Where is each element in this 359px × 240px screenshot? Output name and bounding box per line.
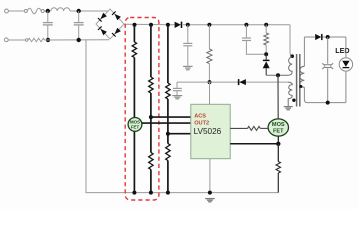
- svg-text:MOS: MOS: [272, 122, 285, 128]
- wire (rectified DC bus): [124, 23, 175, 26]
- capacitor C2 plates: [74, 23, 84, 25]
- wire OUT2 (Q1 to IC): [142, 122, 191, 124]
- node (aux polarity dot): [292, 99, 295, 102]
- junction dot (line3): [166, 132, 170, 136]
- wire (line2 upper): [150, 25, 152, 77]
- wire (line1 lower): [133, 58, 135, 193]
- diode D2 (VCC rectifier): [239, 79, 246, 85]
- capacitor C3 lead: [187, 46, 189, 65]
- bridge diode D-LR: [112, 28, 121, 37]
- junction dot (line2/ACS): [149, 115, 153, 119]
- svg-text:LED: LED: [335, 46, 349, 55]
- ground (C3): [183, 66, 193, 69]
- resistor R2: [132, 42, 136, 57]
- wire (startup R top): [208, 25, 210, 49]
- transformer T1 core: [297, 54, 300, 107]
- wire (line3 to IC): [168, 133, 191, 135]
- transformer T1 primary winding: [266, 57, 292, 75]
- LED D5 symbol: [339, 58, 352, 71]
- junction dot: [77, 9, 81, 13]
- wire: [8, 10, 24, 12]
- wire: [265, 68, 267, 75]
- ground (IC): [205, 199, 215, 202]
- wire (DC bus cont.): [183, 24, 290, 26]
- wire (line3 mid): [167, 99, 169, 144]
- highlight box (red dashed): [125, 18, 159, 201]
- junction dot: [208, 80, 212, 84]
- wire (line2 mid): [150, 93, 152, 153]
- wire (drain): [277, 75, 279, 119]
- wire: [277, 144, 279, 162]
- junction dot: [244, 23, 248, 27]
- capacitor C4 lead: [176, 91, 178, 95]
- node a2 (open circle): [41, 10, 44, 13]
- junction dot: [77, 38, 81, 42]
- capacitor C6 lead: [327, 68, 329, 102]
- bridge diode D-LL: [98, 26, 107, 35]
- wire (return rail down/across bottom): [86, 40, 278, 193]
- wire (line2 lower): [150, 170, 152, 193]
- transistor Q1 (MOS FET circle): [128, 118, 142, 132]
- junction dot: [166, 191, 170, 195]
- capacitor C1 lead: [47, 26, 49, 41]
- resistor R4: [149, 153, 153, 170]
- capacitor C4 plates: [173, 88, 182, 90]
- capacitor C1 lead: [47, 11, 49, 22]
- wire: [8, 39, 25, 41]
- junction dot: [149, 23, 153, 27]
- resistor R5: [166, 83, 170, 99]
- wire (IC ground): [209, 159, 211, 193]
- ground (aux winding): [284, 107, 293, 110]
- capacitor C5 lead: [245, 25, 247, 38]
- wire ACS (to IC): [151, 116, 191, 118]
- junction dot (drain node): [276, 73, 280, 77]
- bridge diode D-UL: [98, 13, 107, 22]
- wire: [265, 54, 267, 60]
- capacitor C5 lead: [246, 41, 266, 54]
- capacitor C6 (output, curved plates): [322, 63, 333, 69]
- node b1 (open circle): [25, 39, 28, 42]
- capacitor C2 lead: [78, 26, 80, 41]
- resistor R7: [207, 49, 212, 64]
- wire (aux to ground): [288, 95, 292, 106]
- resistor R8: [264, 33, 269, 45]
- wire (primary feed from bus): [290, 25, 292, 57]
- svg-text:FET: FET: [273, 128, 284, 134]
- capacitor C1 plates: [43, 23, 53, 25]
- resistor R3: [149, 77, 153, 93]
- wire (LED anode): [345, 37, 347, 58]
- wire (snubber R bottom): [265, 45, 267, 54]
- wire (secondary top lead): [303, 37, 305, 66]
- junction dot: [264, 23, 268, 27]
- node a1 (open circle): [24, 10, 27, 13]
- wire (line1 upper): [133, 25, 135, 42]
- diode D4 (output rectifier): [315, 34, 322, 40]
- node (secondary polarity dot): [299, 85, 302, 88]
- label LED: [335, 46, 349, 55]
- wire (snubber R top): [265, 25, 267, 33]
- junction dot: [149, 191, 153, 195]
- op-amp U1 (LV5026 controller): [191, 104, 230, 158]
- wire (VCC pin): [209, 82, 211, 104]
- transformer T1 secondary winding: [300, 66, 304, 87]
- transformer T1 aux winding: [288, 82, 292, 95]
- wire: [277, 173, 279, 193]
- junction dot: [326, 101, 330, 105]
- wire (gate from IC): [230, 127, 247, 129]
- junction dot: [46, 9, 50, 13]
- terminal J2 (AC neutral): [4, 38, 8, 42]
- wire (LED cathode): [345, 71, 347, 103]
- wire: [322, 36, 346, 38]
- junction dot: [326, 35, 330, 39]
- wire (source): [277, 136, 279, 145]
- capacitor C3 plates: [183, 43, 192, 45]
- wire (VCC rail): [177, 81, 288, 83]
- resistor R1: [28, 38, 45, 42]
- svg-text:FET: FET: [131, 125, 140, 130]
- capacitor C5 plates: [242, 38, 251, 41]
- wire: [44, 10, 51, 12]
- junction dot: [133, 23, 137, 27]
- node (primary top dot): [290, 54, 294, 58]
- capacitor C4 lead: [176, 82, 178, 88]
- resistor R10 (gate): [248, 126, 261, 130]
- fuse F1 (wavy element): [27, 8, 41, 13]
- wire (top AC rail to bridge): [70, 10, 108, 12]
- svg-text:LV5026: LV5026: [194, 127, 222, 136]
- terminal J1 (AC line): [5, 9, 9, 13]
- junction dot: [132, 191, 136, 195]
- svg-text:ACS: ACS: [194, 114, 206, 120]
- wire (gate): [260, 127, 268, 129]
- capacitor C3 lead: [187, 25, 189, 43]
- wire (secondary bottom lead): [304, 87, 346, 102]
- wire (bottom AC rail to bridge): [45, 39, 109, 41]
- diode D3 (clamp): [263, 60, 270, 68]
- junction dot: [208, 191, 212, 195]
- bridge diode D-UR: [112, 11, 121, 20]
- junction dot: [207, 23, 211, 27]
- junction dot: [264, 52, 268, 56]
- svg-text:OUT2: OUT2: [194, 121, 209, 127]
- resistor R9 (sense): [276, 162, 280, 174]
- ground (C4): [172, 96, 182, 99]
- diode D1 (bus series): [175, 22, 182, 28]
- junction dot: [186, 23, 190, 27]
- wire (startup R bottom): [208, 64, 210, 83]
- wire (line3 upper): [167, 25, 169, 83]
- junction dot: [46, 38, 50, 42]
- wire (line3 lower): [167, 161, 169, 193]
- capacitor C6 lead: [327, 37, 329, 64]
- inductor L1: [51, 8, 70, 11]
- capacitor C2 lead: [78, 11, 80, 22]
- junction dot: [166, 23, 170, 27]
- wire (current sense to IC): [230, 143, 278, 145]
- diode bridge DB1 outline: [96, 9, 124, 39]
- transistor Q2 (MOS FET ellipse): [268, 119, 288, 136]
- wire (output top rail): [304, 36, 315, 38]
- junction dot: [276, 142, 280, 146]
- resistor R6: [166, 144, 170, 161]
